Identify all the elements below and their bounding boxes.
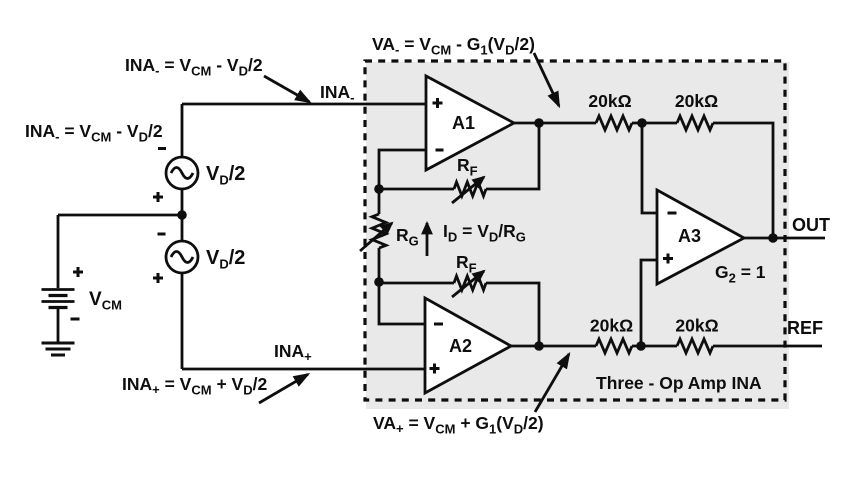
A2 plus mark — [430, 364, 440, 374]
label INA- equation left — [25, 121, 163, 145]
node A2 feedback left — [374, 277, 384, 287]
source1 plus mark — [153, 192, 163, 202]
battery plus mark — [73, 267, 83, 277]
wire battery to ground — [57, 309, 60, 343]
label 20k top-2 — [675, 91, 718, 111]
resistor 20k bottom-1 — [596, 339, 632, 353]
wire INA- horizontal — [182, 103, 426, 106]
wire RF2 left stub — [379, 282, 454, 285]
label 20k bottom-2 — [675, 316, 718, 336]
RG variable arrow — [360, 223, 392, 251]
node junction left — [177, 210, 187, 220]
wire between bottom resistors — [632, 345, 677, 348]
resistor 20k top-1 — [596, 116, 632, 130]
label Three - Op Amp INA — [596, 373, 762, 393]
label OUT — [792, 215, 830, 235]
svg-text:INA-: INA- — [320, 82, 354, 105]
svg-text:Three - Op Amp INA: Three - Op Amp INA — [596, 373, 762, 393]
source VD/2 top — [166, 157, 198, 189]
label REF — [787, 318, 823, 338]
svg-text:20kΩ: 20kΩ — [588, 91, 631, 111]
wire A1 output — [514, 122, 596, 125]
label 20k top-1 — [588, 91, 631, 111]
A3 minus mark — [668, 212, 677, 215]
wire A2 output — [511, 345, 596, 348]
label VA- equation — [372, 34, 535, 58]
arrow INA+ equation to wire — [259, 374, 308, 403]
op-amp A3 — [657, 190, 744, 284]
svg-text:A1: A1 — [452, 113, 475, 133]
wire top feedback corner — [713, 123, 773, 238]
battery minus mark — [71, 318, 80, 321]
label VD/2 bottom — [206, 247, 245, 272]
A2 minus mark — [434, 323, 443, 326]
arrow INA- equation to wire — [264, 76, 310, 102]
node A3 inverting branch — [637, 118, 647, 128]
shaded INA region — [366, 62, 789, 409]
label RF1 — [457, 155, 478, 179]
wire A2 inverting input — [379, 282, 425, 324]
op-amp A1 — [426, 76, 514, 170]
label INA+ net name — [274, 341, 312, 364]
svg-text:20kΩ: 20kΩ — [590, 316, 633, 336]
label 20k bottom-1 — [590, 316, 633, 336]
battery VCM — [42, 290, 75, 308]
resistor RF2 — [454, 276, 486, 290]
wire source2 down to INA+ — [181, 273, 184, 369]
svg-text:OUT: OUT — [792, 215, 830, 235]
current ID arrow — [426, 223, 429, 256]
label INA+ equation bottom — [122, 374, 267, 398]
A1 minus mark — [436, 149, 444, 152]
label VA+ equation — [373, 413, 544, 437]
A3 plus mark — [663, 254, 673, 264]
A1 plus mark — [433, 98, 443, 108]
label A3 — [678, 226, 701, 246]
label VD/2 top — [206, 163, 245, 188]
label VCM — [89, 289, 122, 313]
svg-text:20kΩ: 20kΩ — [675, 316, 718, 336]
wire RG bottom stub — [378, 248, 381, 282]
node A3 output — [768, 233, 778, 243]
svg-text:A2: A2 — [449, 336, 472, 356]
wire RG top stub — [378, 189, 381, 214]
label RF2 — [456, 252, 477, 276]
node A1 feedback left — [374, 184, 384, 194]
RF2 variable arrow — [452, 271, 484, 297]
resistor 20k top-2 — [677, 116, 713, 130]
label G2 = 1 — [715, 262, 766, 286]
node A2 output — [534, 341, 544, 351]
svg-text:20kΩ: 20kΩ — [675, 91, 718, 111]
source2 minus mark — [158, 233, 166, 236]
wire RF1 right to A1 output column — [486, 123, 539, 189]
node A1 output — [534, 118, 544, 128]
source2 plus mark — [153, 273, 163, 283]
wire RF2 right to A2 output column — [486, 283, 539, 346]
RF1 variable arrow — [452, 177, 484, 203]
svg-text:G2 = 1: G2 = 1 — [715, 262, 766, 286]
wire OUT — [744, 237, 825, 240]
arrow VA- equation to node — [534, 53, 559, 106]
resistor RF1 — [454, 182, 486, 196]
wire between top resistors — [632, 122, 677, 125]
svg-text:A3: A3 — [678, 226, 701, 246]
source1 minus mark — [158, 147, 166, 150]
wire node to battery branch — [58, 214, 182, 217]
dashed boundary Three-Op-Amp INA box — [365, 61, 785, 400]
resistor 20k bottom-2 — [677, 339, 713, 353]
wire node to source 2 — [181, 215, 184, 241]
label INA- equation top — [125, 55, 263, 79]
wire RF1 left stub — [379, 188, 454, 191]
wire battery branch down — [57, 215, 60, 288]
wire A1 inverting input — [379, 150, 426, 189]
node A3 non-inverting branch — [636, 341, 646, 351]
source VD/2 bottom — [166, 241, 198, 273]
resistor RG variable — [372, 214, 386, 248]
wire INA+ horizontal — [182, 368, 425, 371]
wire source1 to node — [181, 189, 184, 215]
label A2 — [449, 336, 472, 356]
label RG — [396, 225, 419, 249]
label ID equation — [443, 221, 526, 245]
op-amp A2 — [425, 298, 511, 393]
arrow VA+ equation to node — [535, 354, 569, 412]
label A1 — [452, 113, 475, 133]
wire source column top — [181, 104, 184, 157]
wire REF run — [713, 345, 822, 348]
label INA- net name — [320, 82, 354, 105]
wire A3 non-inverting input — [641, 260, 657, 346]
wire A3 inverting input — [642, 123, 657, 213]
ground — [42, 343, 75, 355]
svg-text:REF: REF — [787, 318, 823, 338]
